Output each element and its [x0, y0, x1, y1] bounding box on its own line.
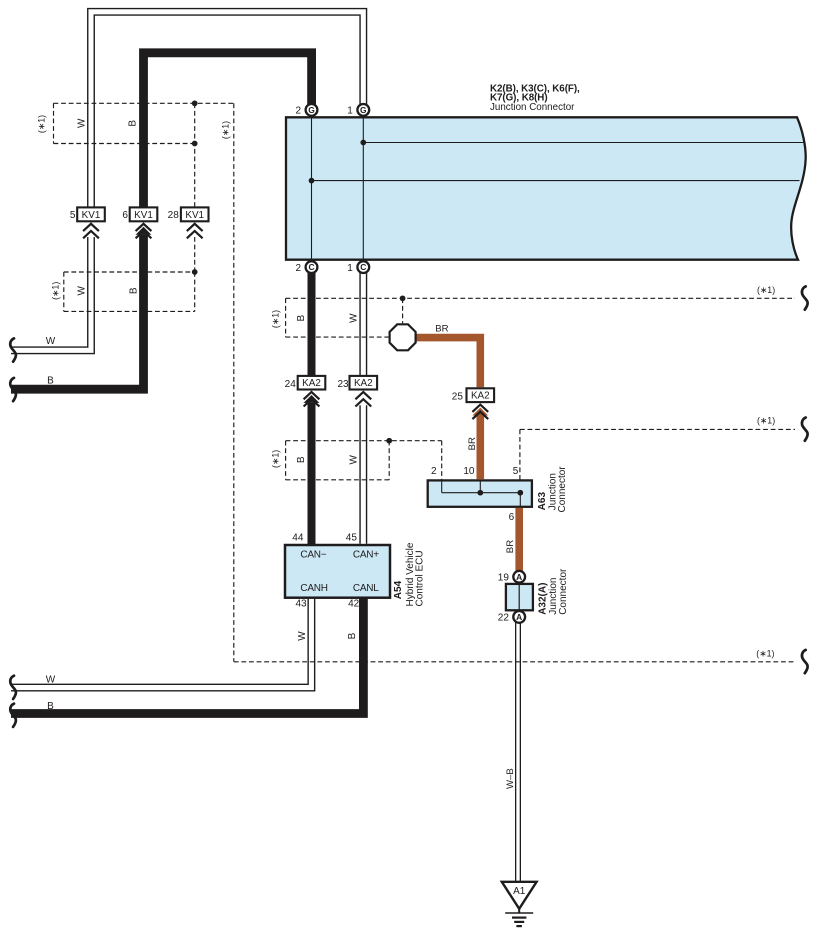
svg-text:A54: A54	[393, 580, 404, 599]
svg-text:(∗1): (∗1)	[756, 649, 774, 659]
svg-text:28: 28	[168, 210, 180, 221]
svg-text:B: B	[128, 120, 139, 127]
svg-text:CAN+: CAN+	[353, 549, 379, 560]
svg-text:10: 10	[463, 466, 475, 477]
svg-text:W: W	[46, 675, 56, 686]
svg-text:CAN−: CAN−	[300, 549, 326, 560]
svg-text:KA2: KA2	[302, 378, 321, 389]
svg-text:W: W	[46, 336, 56, 347]
svg-text:2: 2	[431, 466, 437, 477]
svg-text:44: 44	[292, 532, 304, 543]
svg-text:W: W	[76, 118, 87, 128]
svg-text:A: A	[516, 572, 522, 582]
svg-text:(∗1): (∗1)	[221, 121, 231, 139]
svg-text:KV1: KV1	[82, 210, 101, 221]
svg-text:KA2: KA2	[354, 378, 373, 389]
svg-text:B: B	[296, 315, 307, 322]
svg-text:6: 6	[509, 512, 515, 523]
svg-text:A1: A1	[513, 886, 526, 897]
svg-text:45: 45	[346, 532, 358, 543]
svg-text:Junction Connector: Junction Connector	[490, 102, 575, 113]
svg-text:25: 25	[452, 391, 464, 402]
svg-text:Connector: Connector	[558, 568, 569, 615]
svg-text:(∗1): (∗1)	[50, 282, 60, 300]
svg-text:KA2: KA2	[471, 391, 490, 402]
svg-text:Connector: Connector	[557, 466, 568, 513]
svg-text:B: B	[347, 632, 358, 639]
svg-text:1: 1	[347, 105, 353, 116]
svg-text:(∗1): (∗1)	[757, 415, 775, 425]
svg-text:B: B	[296, 456, 307, 463]
svg-text:C: C	[308, 262, 314, 272]
svg-text:22: 22	[498, 612, 510, 623]
svg-text:W: W	[76, 286, 87, 296]
svg-text:2: 2	[295, 105, 301, 116]
svg-text:(∗1): (∗1)	[37, 115, 47, 133]
svg-text:42: 42	[348, 598, 360, 609]
svg-text:BR: BR	[467, 437, 478, 450]
svg-text:24: 24	[285, 379, 297, 390]
svg-text:CANL: CANL	[353, 583, 379, 594]
svg-text:CANH: CANH	[300, 583, 327, 594]
svg-text:B: B	[47, 375, 54, 386]
svg-text:C: C	[360, 262, 366, 272]
svg-text:A32(A): A32(A)	[537, 583, 548, 615]
svg-text:W: W	[349, 313, 360, 323]
svg-text:G: G	[360, 105, 367, 115]
svg-text:BR: BR	[505, 540, 516, 553]
svg-text:KV1: KV1	[134, 210, 153, 221]
svg-text:G: G	[308, 105, 315, 115]
svg-text:1: 1	[347, 263, 353, 274]
svg-text:(∗1): (∗1)	[270, 310, 280, 328]
svg-text:6: 6	[122, 210, 128, 221]
svg-text:2: 2	[295, 263, 301, 274]
svg-text:W–B: W–B	[505, 768, 516, 789]
svg-text:B: B	[128, 287, 139, 294]
svg-text:W: W	[297, 631, 308, 641]
svg-text:BR: BR	[435, 324, 448, 335]
svg-text:A: A	[516, 612, 522, 622]
svg-text:5: 5	[70, 210, 76, 221]
svg-text:43: 43	[295, 598, 307, 609]
svg-text:W: W	[349, 455, 360, 465]
svg-text:23: 23	[337, 379, 349, 390]
svg-text:Control ECU: Control ECU	[414, 550, 425, 606]
svg-text:(∗1): (∗1)	[270, 450, 280, 468]
svg-text:B: B	[47, 701, 54, 712]
svg-text:(∗1): (∗1)	[757, 285, 775, 295]
svg-text:5: 5	[513, 466, 519, 477]
svg-text:A63: A63	[537, 492, 548, 511]
svg-text:19: 19	[498, 572, 510, 583]
svg-text:KV1: KV1	[185, 210, 204, 221]
